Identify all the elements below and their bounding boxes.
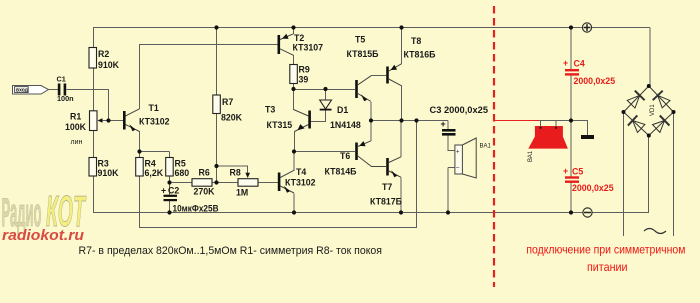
potentiometer R1 <box>65 111 103 146</box>
wire right column C4/C5 <box>570 28 572 70</box>
svg-text:T8: T8 <box>411 36 421 46</box>
wire T3 collector up <box>293 90 295 111</box>
node dot T1 base <box>106 118 110 122</box>
wire C2 bottom to rail <box>169 201 171 213</box>
svg-text:C3 2000,0x25: C3 2000,0x25 <box>430 105 489 115</box>
potentiometer R8 (horizontal) <box>230 168 259 198</box>
svg-text:680: 680 <box>175 168 190 178</box>
wire T7 emitter down to rail <box>400 178 402 214</box>
wire red speaker link across dashed line <box>494 120 539 122</box>
svg-text:R4: R4 <box>145 159 156 169</box>
wire bridge right down AC <box>673 112 675 236</box>
wire input to C1 <box>48 89 58 91</box>
wire R8 wiper tie <box>217 165 249 167</box>
wire R5 top <box>169 152 171 159</box>
svg-text:КТ3102: КТ3102 <box>285 178 316 188</box>
svg-text:2000,0x25: 2000,0x25 <box>572 183 614 193</box>
svg-text:6,2K: 6,2K <box>145 168 164 178</box>
wire output down to C3 <box>447 121 449 130</box>
svg-text:100n: 100n <box>57 94 74 103</box>
resistor R9 <box>290 65 310 85</box>
capacitor C3 <box>430 105 489 136</box>
transistor T7 KT817B <box>370 157 403 207</box>
wire bend down to T1 base node <box>108 90 110 121</box>
svg-text:D1: D1 <box>337 105 348 115</box>
transistor T1 KT3102 <box>123 103 170 132</box>
resistor R7 <box>213 95 243 123</box>
svg-text:КТ3107: КТ3107 <box>293 43 324 53</box>
svg-text:270K: 270K <box>194 187 216 197</box>
wire speaker bottom to rail <box>448 167 455 169</box>
input connector <box>13 86 49 95</box>
wire T5 emitter down to output node, T6 emitter up <box>370 102 372 141</box>
transistor T6 KT814B (PNP) <box>325 141 387 177</box>
svg-text:C4: C4 <box>574 59 585 69</box>
svg-text:+: + <box>456 150 460 156</box>
wire node line R9/D1/T5 base <box>294 89 356 91</box>
svg-text:КТ815Б: КТ815Б <box>347 49 380 59</box>
bridge corner dots <box>647 84 651 88</box>
svg-text:T4: T4 <box>296 167 306 177</box>
diode bottom-right <box>653 116 670 133</box>
svg-text:R9: R9 <box>299 65 310 75</box>
svg-text:R3: R3 <box>98 159 109 169</box>
svg-text:+: + <box>563 166 568 176</box>
transistor T8 KT816B (PNP) <box>386 36 436 86</box>
wire top rail <box>93 27 650 29</box>
svg-text:radiokot.ru: radiokot.ru <box>2 227 84 244</box>
wire T1 collector up <box>139 44 141 109</box>
wire R4 bottom to feedback line <box>139 176 141 228</box>
svg-text:T3: T3 <box>265 105 275 115</box>
wire red spk pins <box>540 121 542 127</box>
svg-text:T1: T1 <box>149 103 159 113</box>
svg-text:+: + <box>161 186 166 196</box>
wire R6 to R7 node <box>212 182 238 184</box>
wire T5 collector to T8 base <box>371 75 386 77</box>
transistor T3 KT315 (mirrored) <box>265 105 311 132</box>
svg-text:КТ817Б: КТ817Б <box>370 197 403 207</box>
resistor R3 <box>89 158 119 179</box>
svg-text:C1: C1 <box>57 75 66 84</box>
svg-text:R2: R2 <box>98 49 109 59</box>
svg-text:T2: T2 <box>294 33 304 43</box>
svg-text:КТ315: КТ315 <box>267 120 293 130</box>
diode top-left <box>627 91 644 108</box>
wire bottom rail <box>93 212 649 214</box>
diode top-right <box>653 91 670 108</box>
svg-text:КТ3102: КТ3102 <box>139 117 170 127</box>
svg-text:лин: лин <box>71 139 83 146</box>
svg-text:100K: 100K <box>65 122 87 132</box>
svg-text:+: + <box>563 58 568 68</box>
svg-text:39: 39 <box>299 75 309 85</box>
svg-text:питании: питании <box>587 260 628 274</box>
wire D1 anode <box>325 90 327 101</box>
transistor T2 KT3107 <box>278 33 324 55</box>
ground bar <box>581 135 594 139</box>
svg-text:BA1: BA1 <box>480 144 492 150</box>
svg-text:R8: R8 <box>230 168 241 178</box>
wire T4 collector up <box>293 152 295 171</box>
wire rail to bridge top <box>649 28 651 87</box>
svg-text:T7: T7 <box>382 182 392 192</box>
svg-text:R7: R7 <box>222 97 233 107</box>
wire speaker node to ground bar <box>571 120 588 122</box>
wire T2 emitter up <box>293 28 295 35</box>
red dashed separator line <box>493 6 495 287</box>
capacitor C1 <box>57 75 74 104</box>
svg-text:+: + <box>441 119 446 129</box>
svg-text:ВА1: ВА1 <box>528 150 534 162</box>
wire R8 to T4 base <box>258 182 278 184</box>
wire C3 to speaker <box>447 136 449 152</box>
wire T3 emitter down <box>294 131 296 152</box>
minus terminal <box>583 208 592 217</box>
resistor R2 <box>89 48 120 71</box>
wire T4 emitter down <box>293 194 295 214</box>
resistor R6 (horizontal) <box>192 168 215 197</box>
svg-text:C5: C5 <box>572 167 583 177</box>
wire T2 collector / R9 column <box>293 55 295 65</box>
wire R5 bottom node <box>169 176 171 195</box>
svg-text:R5: R5 <box>175 159 186 169</box>
plus terminal <box>582 23 591 32</box>
capacitor C2 <box>161 186 219 214</box>
resistor R5 <box>166 158 190 179</box>
capacitor C5 (red) <box>563 166 614 193</box>
svg-text:T5: T5 <box>355 35 365 45</box>
wire T3 base to D1 <box>311 121 327 123</box>
svg-text:910K: 910K <box>98 168 120 178</box>
capacitor C4 (red) <box>563 58 615 86</box>
svg-text:10мкФх25В: 10мкФх25В <box>173 204 219 214</box>
wire R1 wiper arrow line <box>100 120 109 122</box>
diode bottom-left <box>628 115 645 132</box>
wire node T3e/T4c to T6 base <box>294 151 355 153</box>
transistor T4 KT3102 <box>278 167 316 193</box>
speaker BA1 <box>455 138 492 178</box>
svg-text:R1: R1 <box>70 112 81 122</box>
wire left column x93 <box>93 28 95 49</box>
svg-text:1M: 1M <box>236 188 248 198</box>
wire T8 emitter up to rail <box>401 28 403 65</box>
transistor T5 KT815B <box>347 35 380 102</box>
wire output line <box>371 120 448 122</box>
wire T1 collector to T2 base <box>140 44 279 46</box>
svg-text:подключение при симметричном: подключение при симметричном <box>526 243 685 257</box>
red speaker BA1 <box>528 126 568 162</box>
svg-text:КТ814Б: КТ814Б <box>325 167 358 177</box>
wire T1 emitter down <box>139 131 141 158</box>
svg-text:1N4148: 1N4148 <box>330 120 361 130</box>
wire feedback up to output node <box>416 121 418 229</box>
svg-text:R6: R6 <box>199 168 210 178</box>
svg-text:Т6: Т6 <box>340 151 350 161</box>
wire T7 collector up to output line <box>400 121 402 158</box>
svg-text:С2: С2 <box>168 186 179 196</box>
svg-text:910K: 910K <box>98 60 120 70</box>
svg-text:вход: вход <box>16 88 29 94</box>
wire feedback line <box>140 227 418 229</box>
AC tilde <box>644 229 666 234</box>
wire T8 collector down to output line <box>401 86 403 122</box>
wire C1 to bend <box>67 89 110 91</box>
resistor R4 <box>136 158 164 179</box>
svg-text:КТ816Б: КТ816Б <box>404 50 437 60</box>
wire bridge bottom down to rail <box>648 136 650 214</box>
wire T1 emitter node to R5 <box>140 151 170 153</box>
bridge rectifier VD1 <box>624 86 674 136</box>
wire node to T1 base <box>109 120 124 122</box>
wire bridge left down AC <box>623 112 625 236</box>
node dots left/mid <box>214 25 218 29</box>
wire R5node to R6 <box>170 182 193 184</box>
wire R7 column <box>216 28 218 96</box>
diode D1 1N4148 <box>320 100 361 130</box>
svg-text:R7- в пределах 820кОм..1,5мОм: R7- в пределах 820кОм..1,5мОм R1- симмет… <box>79 245 383 257</box>
svg-text:820K: 820K <box>221 113 243 123</box>
svg-text:VD1: VD1 <box>650 104 656 116</box>
svg-text:2000,0x25: 2000,0x25 <box>574 76 616 86</box>
